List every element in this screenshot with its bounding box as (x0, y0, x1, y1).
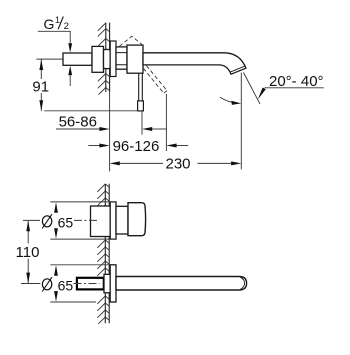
svg-text:96-126: 96-126 (113, 138, 160, 155)
spout tip extension line (240, 73, 242, 170)
cartridge housing (127, 45, 143, 73)
trim neck (116, 47, 127, 69)
supply pipe (thick) (77, 278, 104, 290)
dashed-lever tip extension line (165, 94, 167, 151)
wall lines (bottom view) (105, 184, 109, 324)
svg-text:20°- 40°: 20°- 40° (269, 73, 324, 90)
handle flange (escutcheon) (110, 202, 116, 239)
centreline of inlet pipe (36, 58, 103, 60)
outlet inner face line (230, 66, 245, 72)
lever dashed (open position, down-right) (143, 66, 167, 94)
angle arc arrow (220, 97, 232, 102)
dimension 91 (vertical, left) (41, 59, 138, 110)
svg-text:110: 110 (16, 244, 40, 261)
handle grip (128, 203, 146, 236)
union nut (bottom unit) (104, 274, 110, 293)
wall flange (escutcheon, side) (110, 41, 116, 77)
wall (bottom view) hatch (97, 184, 109, 324)
dimension Ø65 (spout) (50, 265, 110, 302)
svg-text:65: 65 (58, 278, 74, 294)
svg-text:56-86: 56-86 (59, 114, 97, 131)
spout end inner arc (240, 277, 244, 289)
centreline (handle unit) (23, 219, 40, 221)
wall (top view) hatch (98, 23, 110, 95)
spout flange (escutcheon) (110, 265, 116, 302)
lever dashed (up position V) (119, 36, 143, 46)
dimension 230 (120, 162, 232, 164)
union nut at wall (104, 50, 111, 69)
dimension 96-126 (88, 145, 188, 147)
20-40 leader arrow (258, 88, 266, 100)
svg-text:230: 230 (166, 155, 191, 172)
G 1/2 label (44, 15, 69, 32)
dimension 110 (vertical) (27, 221, 29, 283)
concealed cartridge box (91, 206, 111, 237)
svg-text:1: 1 (55, 15, 60, 25)
lever handle (solid, closed position) (139, 73, 143, 102)
spout tube with curved outlet (143, 53, 246, 74)
wall face extension line (down) (109, 92, 111, 171)
inlet pipe (63, 53, 92, 65)
handle body (116, 206, 128, 234)
in-wall body (92, 46, 104, 72)
lever tip extension line (141, 111, 143, 135)
opposing arrow to pipe bottom (68, 66, 72, 75)
G 1/2 leader with arrow to pipe top (38, 31, 70, 43)
lever tip block (138, 101, 144, 111)
centreline (spout unit) (21, 283, 40, 285)
wall lines (top view) (106, 23, 110, 92)
svg-text:G: G (44, 16, 55, 32)
spout bar (front) (116, 277, 247, 291)
tube lines through neck (116, 53, 127, 65)
angle reference tilted line (244, 73, 261, 105)
svg-text:65: 65 (58, 215, 74, 231)
svg-text:91: 91 (32, 78, 49, 95)
svg-text:2: 2 (64, 21, 69, 32)
dimension Ø65 (handle) (50, 202, 116, 239)
